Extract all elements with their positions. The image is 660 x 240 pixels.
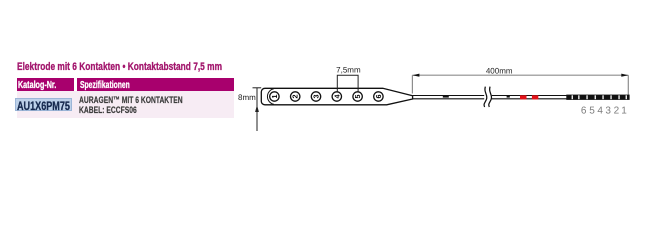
table data row background: [17, 91, 235, 118]
title line: [17, 62, 222, 73]
dimension 400mm right extension: [627, 75, 629, 95]
svg-text:1: 1: [270, 95, 279, 99]
paddle outline: [261, 88, 412, 105]
contact 5: [353, 92, 362, 101]
svg-text:5: 5: [353, 95, 362, 99]
dimension 400mm right arrow: [621, 74, 628, 77]
dimension 8mm vertical line: [256, 88, 258, 131]
svg-text:5: 5: [589, 106, 595, 117]
header cell Katalog-Nr.: [18, 80, 56, 91]
small cable mark: [507, 96, 510, 98]
contact 3: [311, 92, 320, 101]
cable segment 2: [492, 96, 630, 99]
dimension 7,5mm bracket: [337, 75, 358, 91]
svg-text:6: 6: [374, 95, 383, 99]
svg-text:400mm: 400mm: [486, 67, 513, 76]
catalog number highlight: [15, 98, 72, 111]
dimension 400mm left arrow: [412, 74, 419, 77]
dimension 8mm top tick: [253, 87, 262, 89]
dimension 400mm left extension: [411, 75, 413, 93]
svg-text:8mm: 8mm: [238, 93, 256, 102]
svg-text:2: 2: [291, 95, 300, 99]
dimension 8mm up arrow: [255, 105, 259, 112]
contact 2: [291, 92, 300, 101]
cable marker near tip: [443, 96, 449, 98]
svg-text:3: 3: [312, 95, 321, 99]
contact 1: [270, 92, 279, 101]
svg-text:3: 3: [605, 106, 611, 117]
svg-text:4: 4: [597, 106, 603, 117]
red marker 1: [520, 95, 527, 99]
cable segment 1: [413, 96, 485, 99]
dimension 400mm line: [412, 74, 628, 76]
ring contact band: [566, 95, 629, 100]
table header divider: [74, 78, 77, 91]
catalog number AU1X6PM75: [17, 100, 70, 112]
red marker 2: [532, 95, 538, 99]
svg-text:1: 1: [621, 106, 627, 117]
svg-text:6: 6: [581, 106, 587, 117]
svg-text:7,5mm: 7,5mm: [336, 66, 361, 75]
contact 6: [374, 92, 383, 101]
svg-text:2: 2: [614, 106, 620, 117]
header cell Spezifikationen: [80, 80, 130, 91]
specification text: [79, 96, 183, 116]
svg-text:4: 4: [332, 95, 341, 99]
table header bar: [17, 78, 235, 91]
cable break symbol: [484, 87, 492, 107]
paddle tip inner arc: [267, 89, 273, 105]
contact 4: [332, 92, 341, 101]
